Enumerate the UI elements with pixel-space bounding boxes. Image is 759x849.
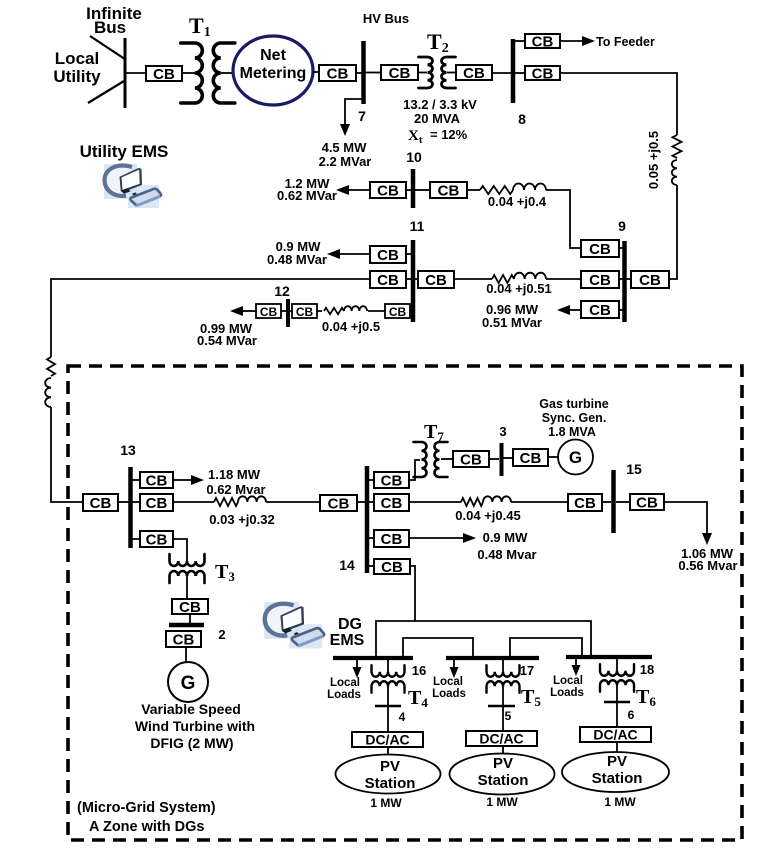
wire T5 to bus 5	[502, 685, 504, 706]
svg-text:0.04 +j0.4: 0.04 +j0.4	[488, 194, 547, 209]
PV station 2	[450, 754, 555, 795]
wire bus 16 to T4	[387, 658, 389, 673]
circuit breaker CB (bus 12 to line 12-11)	[292, 304, 317, 319]
circuit breaker CB (utility)	[146, 66, 182, 83]
wire bus 13 to CB stub (bottom)	[132, 538, 140, 540]
svg-text:0.04 +j0.51: 0.04 +j0.51	[486, 281, 551, 296]
circuit breaker CB (bus 15 side of line 14-15)	[568, 494, 602, 512]
wire CB to bus 10 stub	[406, 189, 411, 191]
svg-text:DFIG (2 MW): DFIG (2 MW)	[150, 735, 233, 751]
svg-text:5: 5	[505, 709, 512, 723]
svg-text:CB: CB	[389, 305, 407, 319]
wire CB to bus 3	[489, 458, 499, 460]
bus 3	[500, 443, 504, 476]
wire line 12-11 to CB	[368, 310, 385, 312]
wire bus 8 to line 8-9	[560, 73, 677, 135]
svg-text:1 MW: 1 MW	[604, 795, 636, 809]
wire CB to line 13-14	[173, 501, 214, 503]
generator G (gas turbine)	[558, 440, 593, 475]
wire bus 15 load branch	[664, 502, 707, 536]
wire CB to line 14-15	[409, 501, 461, 503]
svg-text:CB: CB	[381, 473, 403, 490]
svg-text:CB: CB	[639, 272, 661, 289]
wire CB to T7 primary	[409, 460, 420, 480]
wire bus 6 to DC/AC	[616, 703, 618, 727]
svg-text:Local: Local	[330, 677, 360, 689]
DC/AC converter (PV station 2)	[466, 731, 537, 747]
bus 5	[488, 705, 515, 707]
svg-text:Net: Net	[260, 47, 286, 64]
wire CB to wind generator	[185, 647, 187, 662]
svg-text:Utility EMS: Utility EMS	[80, 142, 169, 161]
svg-text:CB: CB	[146, 473, 168, 490]
svg-text:Local: Local	[553, 675, 583, 687]
svg-text:8: 8	[518, 111, 526, 127]
circuit breaker CB (to feeder)	[525, 34, 560, 51]
wire CB to line 11-9	[454, 278, 492, 280]
svg-text:CB: CB	[532, 66, 554, 83]
circuit breaker CB (bus 14 load)	[374, 530, 409, 548]
wire micro-grid tie line down left side	[51, 279, 370, 357]
wire CB to DG feeder	[410, 566, 415, 621]
svg-text:Sync. Gen.: Sync. Gen.	[542, 411, 607, 425]
svg-text:CB: CB	[381, 531, 403, 548]
circuit breaker CB (bus 14 to line 14-15)	[374, 494, 409, 512]
bus 9	[622, 241, 627, 322]
bus 12	[286, 299, 290, 327]
wire CB to T3	[173, 539, 187, 562]
svg-text:10: 10	[406, 149, 422, 165]
wire bus 18 to T6	[616, 657, 618, 672]
DC/AC converter (PV station 3)	[580, 727, 651, 743]
line impedance 0.04 +j0.5 (line 12-11)	[324, 306, 367, 314]
bus 2	[169, 623, 204, 628]
bus 14	[365, 466, 370, 573]
svg-text:0.04 +j0.45: 0.04 +j0.45	[455, 508, 520, 523]
wire bus 3 to CB stub	[503, 457, 513, 459]
circuit breaker CB (net metering to HV bus)	[319, 65, 356, 83]
svg-text:Gas turbine: Gas turbine	[539, 397, 609, 411]
wire DC/AC to PV station 3	[616, 742, 618, 752]
svg-text:3: 3	[499, 424, 506, 439]
svg-text:Bus: Bus	[94, 18, 126, 37]
svg-text:CB: CB	[328, 496, 350, 513]
svg-text:0.51 MVar: 0.51 MVar	[482, 315, 542, 330]
wire line 14-15 to CB at bus 15	[511, 501, 568, 503]
DC/AC converter (PV station 1)	[352, 732, 423, 748]
svg-text:Station: Station	[365, 775, 416, 792]
svg-text:0.48 MVar: 0.48 MVar	[267, 252, 327, 267]
svg-text:CB: CB	[460, 452, 482, 469]
svg-text:18: 18	[640, 662, 654, 677]
wire bus 11 to CB stub	[415, 278, 418, 280]
wire DG feeder ring outer (bus 16 to bus 18)	[376, 621, 591, 658]
svg-text:To Feeder: To Feeder	[596, 35, 655, 49]
svg-text:11: 11	[410, 218, 425, 234]
tie line impedance (reactor) on left feeder	[45, 357, 55, 407]
transformer T3	[170, 554, 205, 583]
line impedance 0.05 +j0.5 (line 8-9)	[672, 135, 682, 185]
arrow load at bus 13	[173, 475, 204, 485]
arrow load at bus 11	[327, 249, 370, 259]
wire bus 9 to CB stub (right)	[626, 278, 631, 280]
wire line 10-9 to CB at bus 9	[546, 190, 581, 248]
transformer T7	[414, 442, 448, 477]
wire bus 7 to CB stub	[365, 72, 381, 74]
wire CB to line 10-9	[467, 189, 480, 191]
circuit breaker CB (bus 15 load)	[630, 494, 664, 512]
svg-text:13: 13	[120, 442, 136, 458]
line impedance 0.03 +j0.32 (line 13-14)	[214, 496, 266, 506]
wire T6 to bus 6	[616, 684, 618, 702]
circuit breaker CB (bus 10 load)	[370, 182, 406, 200]
svg-text:0.54 MVar: 0.54 MVar	[197, 333, 257, 348]
wire CB to bus 9 stub (middle)	[619, 278, 623, 280]
wire bus 14 to CB stub (line 14-15)	[368, 501, 374, 503]
svg-text:0.04 +j0.5: 0.04 +j0.5	[322, 319, 380, 334]
wire line 8-9 to CB at bus 9	[669, 185, 677, 279]
wire bus 12 to CB stub	[289, 310, 292, 312]
svg-text:Station: Station	[592, 770, 643, 787]
bus 17	[446, 656, 539, 660]
circuit breaker CB (bus 7 side of T2)	[381, 65, 418, 82]
wire CB to T2 primary	[418, 72, 427, 74]
wire CB to T1 primary	[182, 72, 195, 74]
svg-text:CB: CB	[90, 495, 112, 512]
circuit breaker CB (bus 11 load)	[370, 246, 406, 264]
wire T1 secondary to net metering	[221, 72, 234, 74]
svg-text:CB: CB	[589, 241, 611, 258]
circuit breaker CB (bus 14 to DG feeder)	[374, 559, 410, 576]
svg-text:G: G	[181, 673, 196, 694]
svg-text:DC/AC: DC/AC	[593, 727, 637, 743]
svg-text:PV: PV	[607, 753, 627, 770]
arrow load at bus 10	[336, 185, 370, 195]
wire CB to bus 12 stub	[281, 310, 287, 312]
svg-text:7: 7	[358, 108, 366, 124]
bus 15	[611, 470, 616, 533]
svg-text:4.5 MW: 4.5 MW	[322, 140, 368, 155]
svg-text:0.03 +j0.32: 0.03 +j0.32	[209, 512, 274, 527]
wire bus 13 to CB stub (middle)	[132, 501, 140, 503]
wire DC/AC to PV station 2	[502, 746, 504, 754]
circuit breaker CB (bus 9 to line 11-9)	[581, 271, 619, 289]
transformer T2	[419, 57, 456, 88]
bus 8	[511, 39, 516, 103]
svg-text:4: 4	[399, 710, 406, 724]
wire CB to bus 15	[602, 501, 611, 503]
svg-text:14: 14	[339, 557, 355, 573]
svg-text:CB: CB	[520, 450, 542, 467]
wire bus 8 to feeder CB stub	[515, 40, 525, 42]
wire bus 14 to CB stub (load)	[368, 537, 374, 539]
wire line 11-9 to CB at bus 9	[546, 278, 581, 280]
svg-text:CB: CB	[179, 599, 201, 616]
wire bus 15 to CB stub	[616, 501, 630, 503]
svg-text:CB: CB	[260, 305, 278, 319]
circuit breaker CB (bus 2 to wind generator)	[166, 631, 201, 649]
wire CB to bus 9 stub (top)	[619, 247, 623, 249]
arrow load at bus 9	[557, 305, 581, 315]
circuit breaker CB (bus 11 to micro-grid tie)	[370, 271, 406, 289]
svg-text:1.18 MW: 1.18 MW	[208, 467, 261, 482]
svg-text:Variable Speed: Variable Speed	[141, 701, 241, 717]
PV station 1	[336, 755, 441, 794]
svg-text:DC/AC: DC/AC	[365, 732, 409, 748]
svg-text:17: 17	[520, 663, 534, 678]
circuit breaker CB (bus 12 load)	[256, 304, 281, 319]
circuit breaker CB (bus 13 to line 13-14)	[140, 494, 173, 512]
PV station 3	[562, 752, 669, 792]
svg-text:CB: CB	[438, 183, 460, 200]
svg-text:Local: Local	[433, 676, 463, 688]
wire bus 4 to DC/AC	[387, 707, 389, 732]
svg-text:PV: PV	[493, 755, 513, 772]
circuit breaker CB (tie line side of bus 13)	[83, 494, 118, 512]
svg-text:CB: CB	[146, 532, 168, 549]
bus 6	[604, 701, 630, 703]
svg-text:(Micro-Grid System): (Micro-Grid System)	[77, 800, 216, 816]
svg-text:CB: CB	[381, 495, 403, 512]
svg-text:12: 12	[274, 283, 290, 299]
circuit breaker CB (bus 8 to line 8-9)	[525, 66, 560, 83]
wire CB to gas turbine generator	[548, 456, 558, 458]
bus 10	[411, 169, 416, 208]
wire T7 secondary to CB	[441, 458, 453, 460]
wire bus 14 to CB stub (T7)	[368, 479, 374, 481]
svg-text:CB: CB	[146, 495, 168, 512]
micro-grid zone dashed boundary	[68, 366, 742, 840]
arrow local loads at bus 18	[572, 659, 581, 676]
circuit breaker CB (bus 13 load)	[140, 472, 173, 490]
svg-text:0.48 Mvar: 0.48 Mvar	[477, 547, 536, 562]
svg-text:PV: PV	[380, 758, 400, 775]
svg-text:6: 6	[628, 708, 635, 722]
svg-text:Loads: Loads	[432, 688, 466, 700]
svg-text:13.2 / 3.3 kV: 13.2 / 3.3 kV	[403, 97, 477, 112]
circuit breaker CB (bus 9 to line 10-9)	[581, 240, 619, 258]
wire tie line to CB at bus 13	[51, 407, 83, 502]
transformer T1	[181, 43, 235, 103]
svg-text:DG: DG	[338, 616, 362, 633]
svg-text:0.05 +j0.5: 0.05 +j0.5	[646, 131, 661, 189]
svg-text:Loads: Loads	[327, 689, 361, 701]
arrow local loads at bus 17	[450, 660, 459, 678]
wire CB to bus 14	[357, 501, 365, 503]
line impedance 0.04 +j0.4 (line 10-9)	[480, 184, 546, 195]
svg-text:1 MW: 1 MW	[486, 795, 518, 809]
line impedance 0.04 +j0.45 (line 14-15)	[461, 496, 511, 506]
svg-text:CB: CB	[425, 272, 447, 289]
circuit breaker CB (bus 9 load)	[581, 301, 619, 319]
svg-text:2: 2	[218, 627, 225, 642]
svg-text:2.2 MVar: 2.2 MVar	[319, 154, 372, 169]
svg-text:CB: CB	[173, 632, 195, 649]
svg-text:CB: CB	[327, 66, 349, 83]
line impedance 0.04 +j0.51 (line 11-9)	[492, 273, 546, 283]
wire bus 10 to CB stub	[415, 189, 430, 191]
svg-text:DC/AC: DC/AC	[479, 731, 523, 747]
arrow load at bus 12	[230, 306, 256, 316]
svg-text:CB: CB	[153, 66, 175, 83]
svg-text:CB: CB	[636, 495, 658, 512]
svg-text:= 12%: = 12%	[430, 127, 468, 142]
svg-text:EMS: EMS	[330, 632, 365, 649]
svg-text:Utility: Utility	[53, 67, 101, 86]
circuit breaker CB (bus 11 side of line 12-11)	[385, 304, 410, 319]
wire bus 14 to CB stub (DG feeder)	[368, 565, 374, 567]
svg-text:CB: CB	[377, 272, 399, 289]
generator G (wind turbine DFIG)	[168, 662, 208, 702]
wire line 13-14 to CB at bus 14	[266, 501, 320, 503]
wire infinite bus to CB	[126, 72, 146, 74]
bus 18	[566, 655, 652, 659]
wire T4 to bus 4	[387, 685, 389, 706]
wire DG feeder segment bus 17 to bus 18	[510, 638, 582, 657]
svg-text:0.62 Mvar: 0.62 Mvar	[206, 482, 265, 497]
circuit breaker CB (T3 to bus 2)	[172, 599, 208, 616]
svg-text:0.62 MVar: 0.62 MVar	[277, 188, 337, 203]
wire CB to bus 11 stub	[406, 253, 411, 255]
wire bus 8 to CB stub	[515, 72, 525, 74]
net metering circle	[233, 36, 313, 105]
infinite bus source symbol	[88, 36, 125, 108]
bus 7 (HV bus)	[361, 41, 366, 104]
svg-text:CB: CB	[377, 183, 399, 200]
wire net metering to CB	[313, 71, 319, 73]
wire CB to bus 8	[492, 72, 511, 74]
svg-text:0.9 MW: 0.9 MW	[483, 530, 529, 545]
svg-text:Loads: Loads	[550, 687, 584, 699]
svg-text:1 MW: 1 MW	[370, 796, 402, 810]
svg-text:CB: CB	[296, 305, 314, 319]
wire CB to bus 2	[189, 614, 191, 623]
svg-text:G: G	[569, 448, 582, 467]
transformer T4	[372, 665, 405, 693]
arrow local loads at bus 16	[353, 660, 362, 678]
bus 16	[333, 656, 413, 660]
transformer T6	[600, 664, 634, 692]
svg-text:15: 15	[626, 461, 642, 477]
circuit breaker CB (bus 14 side of line 13-14)	[320, 495, 357, 513]
svg-text:HV Bus: HV Bus	[363, 11, 409, 26]
circuit breaker CB (bus 11 to line 11-9)	[418, 271, 454, 289]
svg-text:CB: CB	[574, 495, 596, 512]
svg-text:0.56 Mvar: 0.56 Mvar	[678, 558, 737, 573]
wire bus 5 to DC/AC	[502, 707, 504, 731]
svg-text:CB: CB	[589, 302, 611, 319]
transformer T5	[487, 665, 520, 693]
svg-text:CB: CB	[377, 247, 399, 264]
svg-text:Wind Turbine with: Wind Turbine with	[135, 718, 255, 734]
circuit breaker CB (bus 3 to gas turbine)	[513, 449, 548, 467]
svg-text:Metering: Metering	[240, 65, 307, 82]
arrow load at bus 14	[409, 533, 476, 543]
Utility EMS computer icon	[104, 164, 161, 208]
wire CB to bus 7	[356, 72, 362, 74]
circuit breaker CB (T7 to bus 3)	[453, 451, 489, 469]
wire DC/AC to PV station 1	[387, 747, 389, 755]
circuit breaker CB (bus 8 side of T2)	[456, 65, 492, 82]
svg-text:CB: CB	[532, 34, 554, 51]
circuit breaker CB (bus 10 to line 10-9)	[430, 182, 467, 200]
DG EMS computer icon	[264, 602, 324, 648]
bus 4	[375, 705, 401, 707]
svg-text:16: 16	[412, 663, 426, 678]
bus 11	[411, 240, 416, 322]
circuit breaker CB (bus 13 to T3)	[140, 531, 173, 549]
circuit breaker CB (bus 14 to T7)	[374, 472, 409, 490]
wire CB to bus 11	[406, 278, 411, 280]
wire bus 7 load branch	[345, 99, 362, 127]
bus 13	[128, 467, 133, 548]
svg-text:CB: CB	[463, 65, 485, 82]
svg-text:A Zone with DGs: A Zone with DGs	[89, 819, 204, 835]
arrow to feeder	[560, 36, 595, 46]
wire DG feeder segment bus 16 to bus 17	[403, 638, 473, 658]
circuit breaker CB (bus 9 to line 8-9)	[631, 271, 669, 289]
arrow load at bus 15	[702, 533, 712, 545]
wire bus 13 to CB stub (top)	[132, 479, 140, 481]
wire CB to line 12-11	[317, 310, 322, 312]
svg-text:CB: CB	[381, 559, 403, 576]
svg-text:Station: Station	[478, 772, 529, 789]
svg-text:CB: CB	[589, 272, 611, 289]
svg-text:Local: Local	[55, 49, 99, 68]
arrow load at bus 7	[340, 124, 350, 136]
svg-text:20 MVA: 20 MVA	[414, 111, 461, 126]
wire T3 to CB	[186, 575, 188, 599]
wire T2 secondary to CB	[447, 72, 456, 74]
svg-text:CB: CB	[389, 65, 411, 82]
wire bus 17 to T5	[502, 658, 504, 673]
svg-text:1.8 MVA: 1.8 MVA	[548, 425, 596, 439]
svg-text:9: 9	[618, 218, 626, 234]
wire CB to bus 9 stub (bottom)	[619, 309, 623, 311]
wire CB to bus 13	[118, 501, 129, 503]
